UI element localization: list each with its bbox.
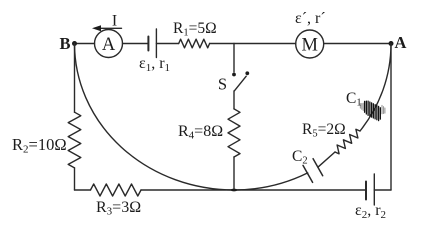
svg-text:ε1, r1: ε1, r1 xyxy=(139,55,170,74)
battery eps2,r2 long plate xyxy=(373,174,375,205)
ammeter A1 circle xyxy=(95,30,123,58)
svg-text:R5=2Ω: R5=2Ω xyxy=(302,121,346,140)
capacitor C1 shadow hatching xyxy=(360,103,385,114)
svg-text:B: B xyxy=(59,34,70,53)
switch S blade xyxy=(234,76,246,91)
bottom junction dot xyxy=(231,189,237,192)
switch S contact dot xyxy=(245,71,249,75)
svg-text:S: S xyxy=(218,75,227,94)
resistor R4 xyxy=(228,109,240,157)
capacitor C2 right plate xyxy=(313,159,323,176)
wire junction to switch xyxy=(233,44,235,73)
battery eps1,r1 short plate xyxy=(147,37,149,51)
node A dot xyxy=(389,41,394,46)
wire motor to A xyxy=(324,43,391,45)
svg-text:C1: C1 xyxy=(346,90,362,109)
wire B to R2 xyxy=(74,44,76,113)
wire R2 to bottom left corner xyxy=(74,168,76,190)
wire R1 to motor xyxy=(210,43,296,45)
svg-text:C2: C2 xyxy=(292,148,308,167)
wire ammeter to battery1 xyxy=(123,43,149,45)
svg-text:I: I xyxy=(112,13,117,30)
resistor R3 xyxy=(91,184,142,196)
resistor R1 xyxy=(179,39,210,48)
svg-text:R2=10Ω: R2=10Ω xyxy=(12,135,67,156)
wire A to bottom right corner xyxy=(390,44,392,191)
wire R5 to C2 xyxy=(318,152,335,167)
node B dot xyxy=(72,41,77,46)
wire corner to R3 xyxy=(75,189,91,191)
resistor R2 xyxy=(68,112,81,168)
svg-text:M: M xyxy=(301,35,317,55)
wire C2 to bottom junction xyxy=(234,173,308,190)
capacitor C1 hatched body xyxy=(365,101,381,121)
svg-text:ε´, r´: ε´, r´ xyxy=(295,10,326,27)
svg-text:R4=8Ω: R4=8Ω xyxy=(178,123,223,142)
wire R4 to bottom junction xyxy=(233,157,235,190)
resistor R5 xyxy=(335,129,360,154)
svg-text:ε2, r2: ε2, r2 xyxy=(355,202,386,221)
wire battery2 to bottom right corner xyxy=(374,189,391,191)
current arrow I xyxy=(95,27,122,29)
motor M1 circle xyxy=(296,30,324,58)
svg-text:R1=5Ω: R1=5Ω xyxy=(173,20,217,39)
battery eps1,r1 long plate xyxy=(155,29,157,58)
wire arc from B to bottom junction xyxy=(75,44,235,191)
wire R3 to battery2 xyxy=(141,189,366,191)
wire top left: B to ammeter xyxy=(75,43,95,45)
battery eps2,r2 short plate xyxy=(365,182,367,200)
svg-text:A: A xyxy=(102,35,116,55)
switch S top dot xyxy=(232,73,236,77)
wire arc from A through C1 to R5 xyxy=(360,44,391,131)
wire battery1 to R1 xyxy=(156,43,178,45)
capacitor C2 left plate xyxy=(303,165,313,182)
svg-text:A: A xyxy=(395,33,407,52)
svg-text:R3=3Ω: R3=3Ω xyxy=(96,199,141,218)
wire switch to R4 xyxy=(233,91,235,109)
